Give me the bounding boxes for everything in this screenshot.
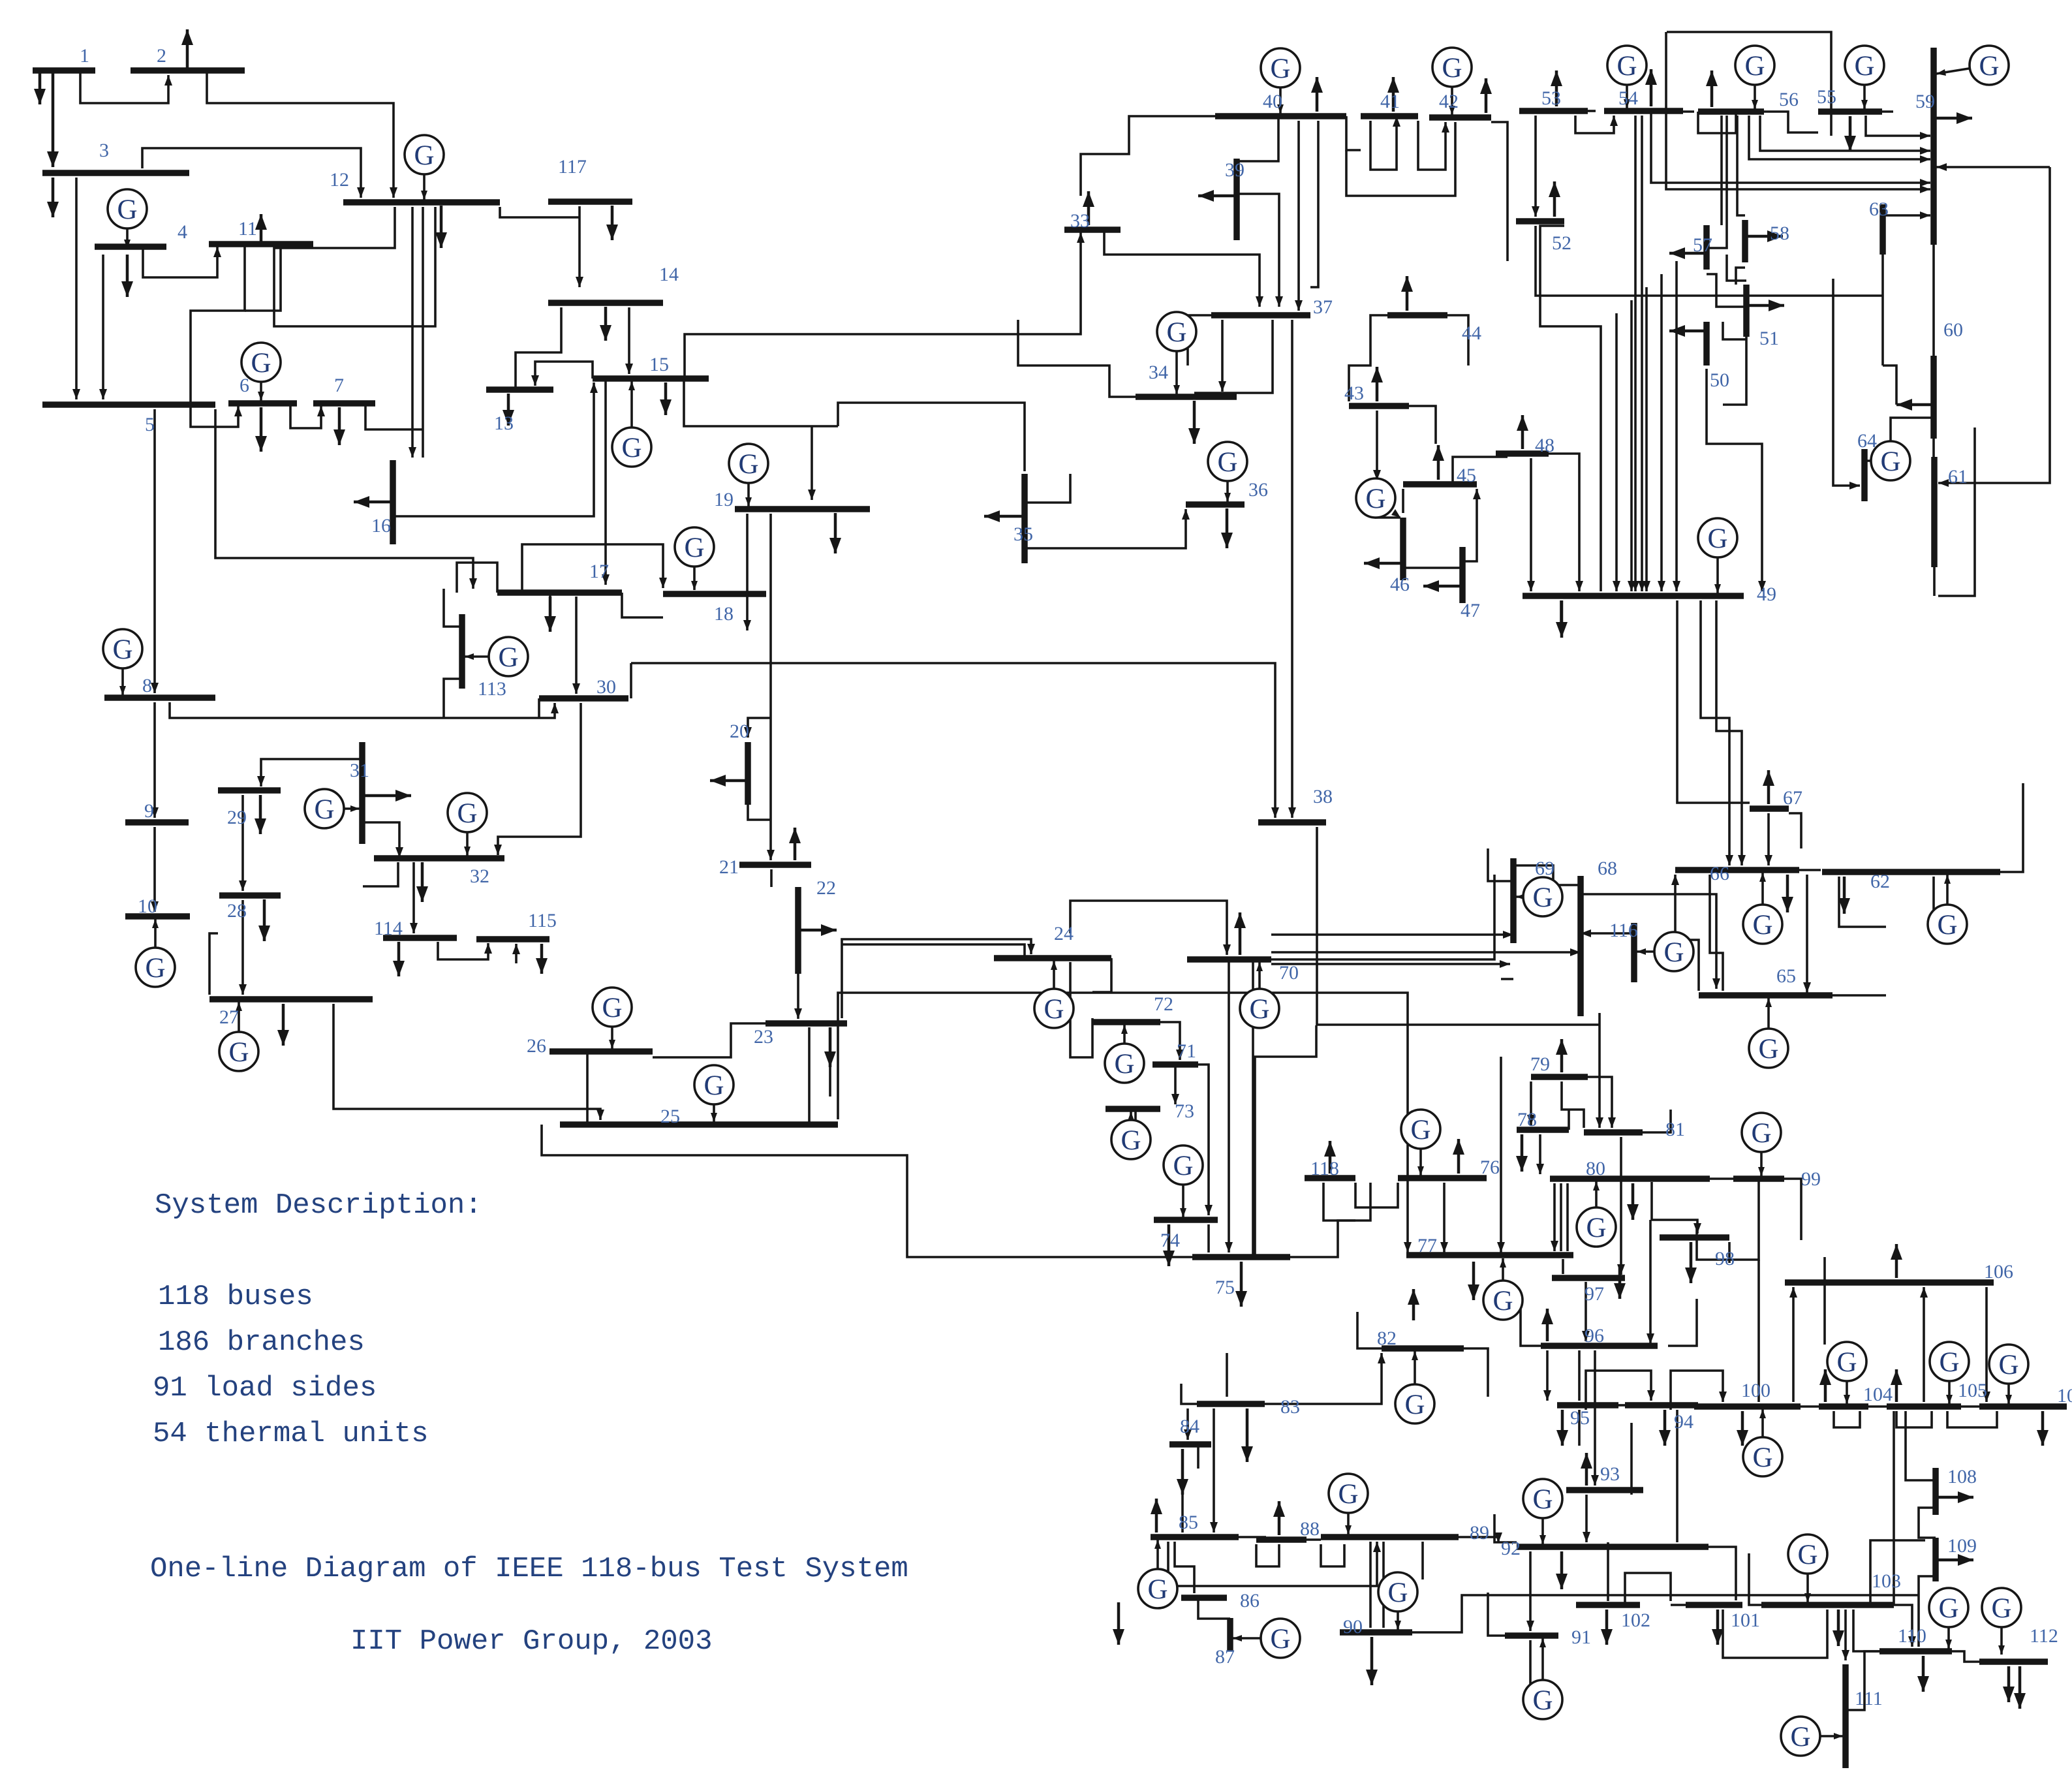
bus 102 bbox=[1576, 1602, 1640, 1608]
wire bbox=[1534, 116, 1537, 217]
bus 107 bbox=[1979, 1403, 2067, 1410]
load arrow bbox=[1376, 367, 1379, 401]
generator G bbox=[1595, 1181, 1598, 1227]
wire bbox=[1462, 489, 1477, 561]
bus 19 bbox=[735, 506, 870, 512]
svg-text:59: 59 bbox=[1915, 91, 1935, 112]
wire bbox=[1881, 255, 1884, 366]
wire bbox=[1092, 958, 1111, 992]
svg-text:G: G bbox=[1939, 1347, 1959, 1378]
wire bbox=[1866, 116, 1930, 136]
wire bbox=[1919, 1508, 1936, 1538]
wire bbox=[1694, 1404, 1698, 1407]
wire bbox=[684, 379, 838, 426]
wire bbox=[1588, 1077, 1612, 1128]
wire bbox=[209, 933, 218, 995]
bus 5 bbox=[42, 401, 215, 408]
svg-text:G: G bbox=[1758, 1034, 1778, 1065]
svg-text:25: 25 bbox=[660, 1106, 680, 1127]
bus 84 bbox=[1169, 1441, 1211, 1448]
wire bbox=[631, 663, 1275, 818]
wire bbox=[333, 1004, 600, 1120]
wire bbox=[1513, 865, 1581, 885]
load arrow bbox=[1246, 1408, 1249, 1462]
bus 52 bbox=[1516, 218, 1564, 225]
bus 11 bbox=[209, 241, 313, 247]
load arrow bbox=[1786, 875, 1789, 912]
bus 28 bbox=[219, 892, 281, 899]
load arrow bbox=[794, 828, 797, 860]
load arrow bbox=[1167, 1224, 1171, 1266]
generator G bbox=[747, 463, 750, 506]
bus 89 bbox=[1321, 1534, 1459, 1540]
generator G bbox=[1626, 65, 1628, 108]
load arrow bbox=[1669, 252, 1707, 255]
wire bbox=[80, 73, 168, 103]
bus 71 bbox=[1152, 1061, 1198, 1068]
svg-text:91: 91 bbox=[1571, 1626, 1591, 1648]
wire bbox=[1618, 1404, 1625, 1407]
bus 36 bbox=[1186, 501, 1245, 508]
bus 17 bbox=[497, 589, 622, 596]
bus 30 bbox=[539, 695, 628, 702]
load arrow bbox=[1849, 116, 1852, 151]
load arrow bbox=[1824, 1369, 1827, 1402]
wire bbox=[1310, 121, 1318, 287]
svg-text:27: 27 bbox=[219, 1006, 239, 1028]
svg-text:60: 60 bbox=[1943, 319, 1963, 341]
wire bbox=[1453, 457, 1508, 484]
wire bbox=[1025, 474, 1070, 503]
wire bbox=[1256, 1544, 1279, 1566]
generator G bbox=[1947, 1608, 1950, 1649]
wire bbox=[1560, 1183, 1562, 1251]
bus 59 bbox=[1930, 48, 1937, 245]
svg-text:G: G bbox=[1707, 523, 1727, 554]
wire bbox=[1676, 1410, 1678, 1542]
wire bbox=[1409, 406, 1436, 444]
svg-text:10: 10 bbox=[138, 895, 157, 917]
load arrow bbox=[1406, 276, 1409, 311]
load arrow bbox=[1226, 508, 1229, 548]
svg-text:18: 18 bbox=[714, 603, 734, 625]
wire bbox=[1500, 1057, 1502, 1252]
wire bbox=[838, 403, 1025, 471]
load arrow bbox=[604, 307, 608, 341]
load arrow bbox=[1485, 78, 1488, 113]
generator G bbox=[1863, 65, 1866, 109]
svg-text:106: 106 bbox=[1984, 1261, 2013, 1283]
svg-text:89: 89 bbox=[1470, 1522, 1489, 1544]
generator G bbox=[121, 649, 124, 695]
wire bbox=[1412, 1595, 1919, 1632]
svg-text:2: 2 bbox=[157, 45, 166, 67]
generator G bbox=[1541, 1499, 1544, 1544]
load arrow bbox=[1618, 1264, 1622, 1299]
wire bbox=[1529, 1551, 1532, 1631]
svg-text:G: G bbox=[1532, 1685, 1553, 1716]
svg-text:50: 50 bbox=[1710, 369, 1729, 391]
bus 15 bbox=[593, 375, 709, 382]
wire bbox=[1764, 112, 1818, 132]
wire bbox=[1883, 214, 1930, 217]
load arrow bbox=[1423, 585, 1462, 588]
wire bbox=[838, 993, 1408, 1252]
wire bbox=[1369, 1542, 1372, 1628]
svg-text:G: G bbox=[1998, 1350, 2018, 1380]
wire bbox=[438, 942, 488, 959]
bus 21 bbox=[739, 862, 811, 868]
generator G bbox=[1156, 1540, 1159, 1589]
load arrow bbox=[1746, 304, 1784, 307]
wire bbox=[1521, 1305, 1541, 1346]
load arrow bbox=[834, 513, 837, 553]
load arrow bbox=[1605, 1610, 1609, 1645]
wire bbox=[1237, 194, 1279, 307]
load arrow bbox=[540, 944, 544, 974]
bus 6 bbox=[228, 400, 297, 407]
wire bbox=[1594, 1350, 1596, 1486]
svg-text:One-line Diagram of IEEE 118-b: One-line Diagram of IEEE 118-bus Test Sy… bbox=[150, 1553, 908, 1585]
svg-text:64: 64 bbox=[1857, 430, 1877, 452]
bus 49 bbox=[1523, 593, 1744, 599]
wire bbox=[1488, 1593, 1505, 1636]
bus 64 bbox=[1861, 449, 1868, 501]
generator G bbox=[1182, 1165, 1184, 1217]
generator G bbox=[1053, 961, 1055, 1008]
wire bbox=[808, 1027, 811, 1125]
svg-text:75: 75 bbox=[1215, 1277, 1235, 1298]
wire bbox=[1321, 1544, 1344, 1566]
wire bbox=[1581, 932, 1634, 935]
svg-text:G: G bbox=[621, 433, 642, 463]
bus 38 bbox=[1258, 819, 1326, 826]
wire bbox=[1936, 166, 2050, 168]
svg-text:52: 52 bbox=[1552, 232, 1571, 254]
load arrow bbox=[1896, 403, 1934, 407]
wire bbox=[1271, 963, 1510, 965]
wire bbox=[245, 247, 281, 311]
load arrow bbox=[52, 178, 55, 217]
load arrow bbox=[421, 862, 424, 902]
wire bbox=[1566, 1183, 1569, 1251]
wire bbox=[1864, 1651, 1879, 1690]
wire bbox=[1806, 875, 1808, 993]
wire bbox=[1868, 1405, 1887, 1408]
wire bbox=[393, 382, 594, 516]
svg-text:101: 101 bbox=[1731, 1610, 1760, 1631]
svg-text:G: G bbox=[414, 140, 434, 171]
wire bbox=[1749, 116, 1930, 159]
svg-text:29: 29 bbox=[227, 807, 247, 828]
bus 7 bbox=[313, 400, 375, 407]
svg-text:108: 108 bbox=[1947, 1466, 1977, 1487]
svg-text:30: 30 bbox=[596, 676, 616, 698]
wire bbox=[1784, 1179, 1801, 1240]
wire bbox=[578, 217, 581, 287]
bus 86 bbox=[1181, 1595, 1227, 1601]
bus 110 bbox=[1879, 1648, 1952, 1655]
generator G bbox=[1767, 998, 1770, 1048]
svg-text:80: 80 bbox=[1586, 1158, 1605, 1179]
wire bbox=[1833, 279, 1860, 486]
bus 29 bbox=[218, 787, 281, 794]
wire bbox=[1932, 877, 1935, 927]
svg-text:100: 100 bbox=[1741, 1380, 1770, 1401]
svg-text:3: 3 bbox=[99, 140, 109, 161]
svg-text:103: 103 bbox=[1872, 1570, 1901, 1592]
bus 66 bbox=[1675, 867, 1799, 873]
svg-text:111: 111 bbox=[1855, 1688, 1883, 1709]
svg-text:57: 57 bbox=[1693, 234, 1712, 256]
bus 108 bbox=[1932, 1468, 1939, 1515]
bus 24 bbox=[994, 955, 1111, 961]
wire bbox=[1213, 1408, 1215, 1532]
wire bbox=[1932, 439, 1935, 457]
bus 16 bbox=[390, 460, 396, 544]
bus 61 bbox=[1931, 457, 1938, 567]
svg-text:118 buses: 118 buses bbox=[158, 1281, 313, 1313]
wire bbox=[522, 544, 663, 593]
generator G bbox=[1397, 1592, 1399, 1630]
svg-text:G: G bbox=[1752, 1442, 1772, 1473]
bus 48 bbox=[1496, 450, 1549, 457]
svg-text:24: 24 bbox=[1054, 923, 1074, 944]
bus 112 bbox=[1979, 1658, 2048, 1665]
svg-text:G: G bbox=[112, 634, 132, 665]
wire bbox=[515, 944, 518, 963]
bus 76 bbox=[1398, 1175, 1487, 1181]
bus 117 bbox=[548, 198, 632, 205]
bus 100 bbox=[1694, 1403, 1801, 1410]
load arrow bbox=[611, 206, 614, 240]
bus 101 bbox=[1686, 1602, 1742, 1608]
bus 8 bbox=[104, 694, 215, 701]
wire bbox=[1421, 1542, 1424, 1579]
wire bbox=[1882, 110, 1893, 113]
wire bbox=[1667, 32, 1831, 136]
wire bbox=[1221, 320, 1224, 392]
wire bbox=[1641, 116, 1643, 591]
svg-text:117: 117 bbox=[558, 156, 587, 178]
wire bbox=[1723, 337, 1746, 405]
wire bbox=[1271, 951, 1581, 954]
svg-text:G: G bbox=[1166, 317, 1186, 348]
svg-text:G: G bbox=[1270, 54, 1290, 84]
wire bbox=[1709, 1547, 1736, 1600]
bus 113 bbox=[459, 614, 465, 689]
wire bbox=[1710, 875, 1723, 991]
load arrow bbox=[397, 942, 401, 976]
bus 50 bbox=[1703, 322, 1710, 366]
wire bbox=[1491, 122, 1508, 261]
bus 77 bbox=[1406, 1252, 1573, 1258]
wire bbox=[578, 206, 581, 217]
wire bbox=[412, 862, 415, 933]
load arrow bbox=[1560, 1551, 1564, 1589]
wire bbox=[516, 307, 561, 390]
svg-text:G: G bbox=[1044, 994, 1064, 1025]
wire bbox=[1181, 1495, 1184, 1532]
generator G bbox=[1175, 332, 1178, 394]
load arrow bbox=[1278, 1501, 1281, 1535]
wire bbox=[153, 827, 156, 912]
svg-text:76: 76 bbox=[1480, 1157, 1500, 1178]
svg-text:G: G bbox=[1365, 484, 1385, 514]
svg-text:G: G bbox=[117, 194, 137, 225]
wire bbox=[1723, 322, 1746, 339]
wire bbox=[1952, 1651, 1979, 1662]
wire bbox=[290, 406, 321, 428]
wire bbox=[1792, 1287, 1795, 1402]
svg-text:15: 15 bbox=[649, 354, 669, 375]
wire bbox=[1160, 1022, 1180, 1060]
wire bbox=[170, 702, 555, 718]
wire bbox=[1896, 1411, 1932, 1427]
wire bbox=[1932, 245, 1935, 356]
load arrow bbox=[1412, 1289, 1415, 1320]
wire bbox=[1349, 315, 1387, 401]
bus 54 bbox=[1604, 108, 1683, 114]
wire bbox=[1134, 1109, 1137, 1149]
bus 3 bbox=[42, 170, 189, 176]
bus 47 bbox=[1459, 547, 1466, 603]
wire bbox=[1645, 287, 1648, 591]
wire bbox=[1923, 1287, 1925, 1402]
svg-text:G: G bbox=[704, 1070, 724, 1101]
wire bbox=[1237, 115, 1278, 161]
load arrow bbox=[2007, 1666, 2011, 1702]
svg-text:62: 62 bbox=[1870, 871, 1890, 892]
svg-text:69: 69 bbox=[1535, 858, 1554, 879]
generator G bbox=[1948, 1361, 1951, 1404]
svg-text:61: 61 bbox=[1948, 466, 1968, 488]
svg-text:36: 36 bbox=[1248, 479, 1268, 501]
wire bbox=[797, 974, 799, 1019]
wire bbox=[1307, 1538, 1321, 1541]
svg-text:G: G bbox=[1790, 1722, 1810, 1752]
wire bbox=[2000, 783, 2023, 872]
bus 93 bbox=[1566, 1487, 1643, 1493]
load arrow bbox=[1521, 415, 1524, 449]
load arrow bbox=[1741, 1411, 1744, 1446]
wire bbox=[748, 805, 771, 820]
bus 20 bbox=[745, 742, 751, 805]
load arrow bbox=[354, 501, 393, 504]
wire bbox=[1070, 901, 1227, 955]
bus 109 bbox=[1932, 1538, 1939, 1581]
svg-text:G: G bbox=[1532, 1484, 1553, 1515]
load arrow bbox=[1316, 77, 1319, 112]
load arrow bbox=[1193, 401, 1196, 444]
wire bbox=[1585, 1282, 1587, 1341]
bus 45 bbox=[1403, 481, 1477, 488]
wire bbox=[549, 593, 551, 628]
bus 78 bbox=[1517, 1127, 1569, 1133]
wire bbox=[444, 679, 462, 718]
bus 83 bbox=[1197, 1401, 1265, 1407]
svg-text:56: 56 bbox=[1779, 89, 1799, 110]
load arrow bbox=[1631, 1183, 1635, 1220]
wire bbox=[1271, 933, 1513, 936]
bus 80 bbox=[1550, 1175, 1710, 1182]
wire bbox=[143, 247, 217, 277]
wire bbox=[1562, 1081, 1584, 1128]
wire bbox=[1844, 1610, 1847, 1660]
load arrow bbox=[39, 73, 42, 104]
svg-text:G: G bbox=[1217, 447, 1237, 478]
wire bbox=[1933, 567, 1936, 596]
svg-text:92: 92 bbox=[1501, 1538, 1521, 1559]
svg-text:G: G bbox=[1147, 1574, 1167, 1605]
svg-text:40: 40 bbox=[1263, 91, 1282, 112]
wire bbox=[1671, 1604, 1686, 1606]
svg-text:34: 34 bbox=[1149, 362, 1168, 383]
wire bbox=[1853, 1610, 1879, 1651]
svg-text:G: G bbox=[1249, 994, 1269, 1025]
load arrow bbox=[1560, 1039, 1564, 1072]
load arrow bbox=[1663, 1410, 1667, 1446]
svg-text:8: 8 bbox=[142, 675, 152, 696]
load arrow bbox=[1457, 1139, 1461, 1174]
wire bbox=[1917, 1606, 1920, 1647]
bus 10 bbox=[125, 913, 190, 920]
bus 60 bbox=[1930, 356, 1937, 439]
generator G bbox=[2007, 1364, 2010, 1404]
generator G bbox=[1123, 1025, 1126, 1063]
svg-text:71: 71 bbox=[1177, 1040, 1196, 1062]
bus 39 bbox=[1233, 159, 1240, 240]
wire bbox=[1585, 1495, 1588, 1542]
svg-text:68: 68 bbox=[1598, 858, 1617, 879]
wire bbox=[542, 1125, 1192, 1257]
wire bbox=[1671, 1371, 1723, 1410]
wire bbox=[1919, 1576, 1936, 1606]
wire bbox=[1683, 110, 1694, 113]
svg-text:17: 17 bbox=[589, 561, 609, 582]
load arrow bbox=[282, 1004, 285, 1046]
svg-text:85: 85 bbox=[1179, 1512, 1198, 1533]
svg-text:87: 87 bbox=[1215, 1646, 1235, 1668]
bus 116 bbox=[1631, 923, 1637, 982]
bus 2 bbox=[131, 67, 245, 74]
svg-text:G: G bbox=[1751, 1118, 1771, 1149]
svg-text:74: 74 bbox=[1160, 1230, 1180, 1251]
wire bbox=[1651, 112, 1930, 183]
load arrow bbox=[829, 1027, 832, 1067]
wire bbox=[153, 702, 156, 818]
bus 12 bbox=[343, 199, 500, 206]
generator G bbox=[126, 209, 129, 249]
generator G bbox=[1347, 1493, 1350, 1534]
svg-text:G: G bbox=[1404, 1390, 1425, 1420]
bus 68 bbox=[1577, 876, 1584, 1016]
load arrow bbox=[52, 73, 55, 167]
wire bbox=[191, 247, 245, 427]
load arrow bbox=[1087, 191, 1090, 225]
wire bbox=[1801, 1405, 1819, 1408]
svg-text:IIT Power Group, 2003: IIT Power Group, 2003 bbox=[350, 1625, 713, 1658]
bus 41 bbox=[1361, 113, 1418, 119]
load arrow bbox=[1690, 1242, 1693, 1283]
wire bbox=[1540, 226, 1601, 591]
wire bbox=[1883, 366, 1896, 405]
bus 75 bbox=[1192, 1254, 1290, 1260]
load arrow bbox=[1553, 181, 1556, 217]
svg-text:107: 107 bbox=[2057, 1385, 2072, 1407]
wire bbox=[411, 207, 414, 458]
wire bbox=[1799, 869, 1821, 871]
